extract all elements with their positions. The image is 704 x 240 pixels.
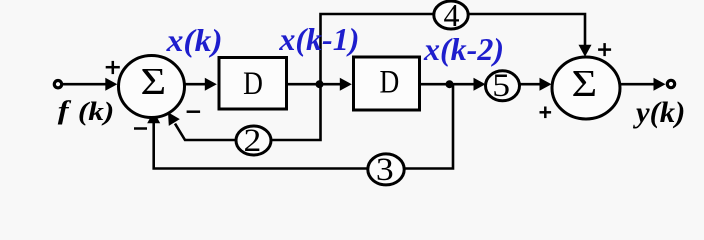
- wire: gain 5 to summer S2: [520, 83, 542, 86]
- wire: input terminal to summer S1: [62, 83, 107, 86]
- svg-text:x(k): x(k): [166, 24, 223, 59]
- svg-text:y(k): y(k): [632, 95, 685, 129]
- delay block D1: [219, 58, 287, 110]
- wire: D2 to gain 5: [420, 83, 475, 86]
- wire: feedback path through gain 3 (node x(k-2) down, left rail, up into S1): [154, 84, 453, 168]
- junction node x(k-2): [446, 80, 454, 88]
- input terminal (open circle): [54, 81, 61, 88]
- output terminal (open circle): [667, 80, 674, 87]
- gain block 4: [434, 1, 468, 29]
- plus sign at S2 left input: [540, 107, 552, 119]
- svg-text:x(k-1): x(k-1): [278, 21, 359, 57]
- svg-text:2: 2: [243, 122, 261, 159]
- svg-text:5: 5: [492, 67, 510, 104]
- svg-text:Σ: Σ: [571, 62, 597, 104]
- svg-text:Σ: Σ: [141, 60, 167, 102]
- svg-text:D: D: [380, 63, 400, 100]
- wire: D1 to delay D2: [287, 83, 341, 86]
- minus sign at S1 lower-right input: [187, 110, 201, 113]
- svg-text:(k): (k): [78, 98, 114, 127]
- gain block 2: [236, 126, 271, 155]
- plus sign at S2 top input: [598, 43, 611, 56]
- svg-text:4: 4: [444, 0, 460, 33]
- summer S2: [552, 57, 620, 119]
- summer S1: [119, 56, 185, 118]
- svg-text:D: D: [243, 64, 263, 101]
- minus sign at S1 bottom input: [134, 127, 147, 130]
- gain block 5: [486, 71, 520, 101]
- svg-text:3: 3: [376, 151, 394, 188]
- wire: feedforward path through gain 4 (node x(k-1) up, top rail, down into S2): [321, 14, 586, 84]
- wire: feedback path through gain 2 (node x(k-1) down and left into S1): [175, 84, 321, 140]
- svg-text:x(k-2): x(k-2): [423, 31, 504, 67]
- plus sign at S1 left input: [106, 61, 120, 74]
- wire: S2 to output terminal: [620, 83, 654, 86]
- wire: S1 to delay D1: [184, 83, 206, 86]
- delay block D2: [354, 57, 420, 110]
- junction node x(k-1): [316, 80, 324, 88]
- gain block 3: [368, 154, 404, 185]
